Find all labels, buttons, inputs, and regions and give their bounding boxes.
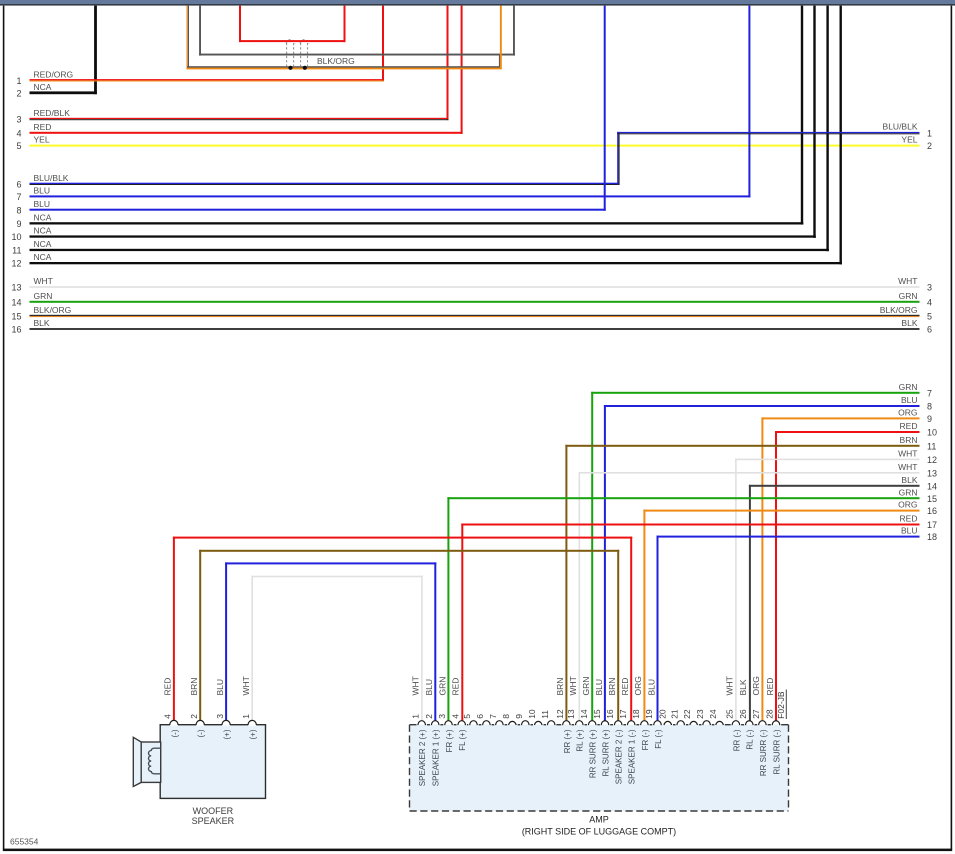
svg-text:BLK: BLK [901,475,917,485]
svg-text:BLU/BLK: BLU/BLK [883,122,918,132]
svg-text:13: 13 [927,468,937,478]
wire BLU row 8 horizontal [604,405,920,407]
wire NCA row12 vertical [840,6,842,265]
wire NCA row11 vertical [826,6,828,252]
svg-text:WHT: WHT [898,276,917,286]
svg-text:5: 5 [462,714,472,719]
svg-text:18: 18 [631,709,641,719]
wire WHT row 12 horizontal [735,459,919,461]
svg-text:17: 17 [618,709,628,719]
amp pin 11 scallop [547,721,555,725]
svg-text:(RIGHT SIDE OF LUGGAGE COMPT): (RIGHT SIDE OF LUGGAGE COMPT) [522,827,676,837]
svg-text:9: 9 [927,414,932,424]
wire BLK row 16 [30,328,920,330]
wire RED/ORG row 1 [30,79,385,80]
svg-text:NCA: NCA [34,212,52,222]
svg-text:10: 10 [11,232,21,242]
woofer pin 2 scallop [196,720,204,726]
wire GRN row 7 vertical [591,392,593,721]
svg-text:BRN: BRN [900,435,918,445]
woofer speaker cone [133,737,141,786]
svg-text:RR SURR (+): RR SURR (+) [589,729,598,778]
wire WHT row 12 vertical [735,459,737,721]
svg-text:20: 20 [657,709,667,719]
amp pin 18 scallop [641,721,649,725]
wire ORG row 9 vertical [761,417,763,720]
woofer pin 3 scallop [222,720,230,726]
woofer speaker magnet body [141,742,161,782]
wire ORG row 16 horizontal [643,510,919,512]
wire WHT woofer vertical left [251,576,253,721]
amp box fill [410,725,789,811]
svg-text:1: 1 [410,714,420,719]
svg-text:15: 15 [927,494,937,504]
svg-text:RED: RED [34,122,52,132]
svg-text:NCA: NCA [34,239,52,249]
svg-text:15: 15 [592,709,602,719]
svg-text:1: 1 [16,76,21,86]
inline connector dashed lead 2 [293,43,295,66]
amp box dashed bottom [410,810,789,812]
svg-text:9: 9 [514,714,524,719]
wire BLU/BLK row 6 [30,183,620,184]
wire gray vertical left [199,6,201,56]
svg-text:5: 5 [927,312,932,322]
wire NCA row9 vertical [801,6,803,225]
svg-text:19: 19 [644,709,654,719]
svg-text:NCA: NCA [34,226,52,236]
svg-text:RED/BLK: RED/BLK [34,108,71,118]
wire BLU row7 vertical [748,6,750,198]
wire red U right leg [344,6,346,42]
svg-text:26: 26 [738,709,748,719]
svg-text:7: 7 [927,388,932,398]
wire BLU woofer vertical right [434,562,436,720]
amp pin 24 scallop [716,721,724,725]
svg-text:BLU: BLU [901,526,918,536]
woofer pin 1 scallop [248,720,256,726]
svg-text:F02-JB: F02-JB [776,691,786,719]
svg-text:655354: 655354 [10,836,39,846]
svg-text:BLK/ORG: BLK/ORG [880,305,918,315]
svg-text:SPEAKER 1 (+): SPEAKER 1 (+) [432,729,441,786]
svg-text:SPEAKER 2 (+): SPEAKER 2 (+) [418,729,427,786]
svg-text:1: 1 [927,129,932,139]
wire BLU woofer vertical left [225,562,227,720]
svg-text:GRN: GRN [581,677,591,696]
svg-text:4: 4 [450,714,460,719]
wire NCA row 11 [30,249,829,251]
svg-text:BLU: BLU [901,395,918,405]
inline connector arc right [300,40,309,44]
svg-text:27: 27 [751,709,761,719]
svg-text:NCA: NCA [34,82,52,92]
wire BLK/ORG orange horizontal [187,68,502,70]
wire BRN woofer horizontal [199,550,619,552]
amp pin 19 scallop [654,721,662,725]
svg-text:RR SURR (-): RR SURR (-) [759,729,768,776]
wire NCA pin2 vertical [94,6,97,95]
svg-text:FL (-): FL (-) [654,729,663,749]
svg-text:8: 8 [501,714,511,719]
inline connector dashed lead 4 [307,43,309,66]
wire BLU row 18 vertical [657,536,659,721]
svg-text:12: 12 [555,709,565,719]
svg-text:GRN: GRN [437,677,447,696]
svg-text:28: 28 [765,709,775,719]
svg-text:3: 3 [215,714,225,719]
svg-text:6: 6 [475,714,485,719]
wire RED woofer horizontal [173,537,632,539]
wire BRN woofer vertical left [199,550,201,721]
svg-text:WHT: WHT [898,462,917,472]
svg-text:4: 4 [163,714,173,719]
svg-text:RR (-): RR (-) [732,729,741,751]
svg-text:WHT: WHT [898,449,917,459]
svg-text:RED: RED [620,678,630,696]
amp pin 9 scallop [522,721,530,725]
svg-text:NCA: NCA [34,252,52,262]
wire RED/BLK row 3 [30,118,449,119]
wire gray vertical right [513,6,515,56]
wire RED row 17 vertical [461,524,463,721]
wire red U left leg [239,6,241,42]
svg-text:SPEAKER 1 (-): SPEAKER 1 (-) [628,729,637,784]
amp pin 5 scallop [470,721,478,725]
amp pin 21 scallop [677,721,685,725]
svg-text:3: 3 [927,283,932,293]
svg-text:12: 12 [927,455,937,465]
amp pin 14 scallop [588,721,596,725]
wire NCA row 2 [30,91,97,94]
wire NCA row 9 [30,222,804,224]
wire NCA row10 vertical [813,6,815,238]
svg-text:23: 23 [695,709,705,719]
svg-text:13: 13 [11,283,21,293]
svg-text:BLU: BLU [34,186,51,196]
wire BLU row 7 [30,195,751,197]
amp pin 20 scallop [664,721,672,725]
inline connector dashed lead 1 [286,43,288,66]
svg-text:5: 5 [16,141,21,151]
wire BLU/BLK right row [617,132,919,133]
svg-text:22: 22 [682,709,692,719]
wire RED woofer vertical left [173,537,175,721]
amp pin 26 scallop [746,721,754,725]
svg-text:14: 14 [927,481,937,491]
wire BLU row 18 horizontal [657,536,920,538]
svg-text:BLK/ORG: BLK/ORG [34,305,72,315]
svg-text:WHT: WHT [568,676,578,695]
svg-text:2: 2 [927,141,932,151]
wire red vertical to row3 [447,6,449,120]
svg-text:10: 10 [527,709,537,719]
svg-text:YEL: YEL [34,135,50,145]
svg-text:ORG: ORG [633,676,643,695]
svg-text:18: 18 [927,532,937,542]
svg-text:GRN: GRN [899,291,918,301]
svg-text:BLU: BLU [215,679,225,696]
bottom border [3,849,952,852]
wire WHT row 13 vertical [579,472,581,721]
wire BLK row 14 horizontal [749,485,920,487]
wire BRN woofer vertical right [617,550,619,721]
svg-text:RL SURR (-): RL SURR (-) [772,729,781,774]
wire BLK/ORG gray segment [187,66,501,68]
top header bar [0,0,955,4]
woofer pin 4 scallop [170,720,178,726]
amp pin 25 scallop [732,721,740,725]
wire BRN row 11 vertical [565,445,567,721]
svg-text:(-): (-) [170,729,179,737]
svg-text:BLU: BLU [646,679,656,696]
svg-text:13: 13 [566,709,576,719]
svg-text:GRN: GRN [899,382,918,392]
inline connector arc left [286,40,295,44]
wire BLK row 14 vertical [749,485,751,721]
wire BLU row8 vertical [604,6,606,211]
svg-text:BLU: BLU [424,679,434,696]
svg-text:ORG: ORG [898,408,917,418]
svg-text:BLK/ORG: BLK/ORG [317,56,355,66]
svg-text:7: 7 [16,192,21,202]
wire GRN row 15 vertical [447,497,449,720]
svg-text:BLU/BLK: BLU/BLK [34,173,69,183]
svg-text:7: 7 [488,714,498,719]
amp pin 7 scallop [496,721,504,725]
wire BLU/BLK vertical link [617,132,618,185]
svg-text:FR (-): FR (-) [641,729,650,750]
svg-text:RED/ORG: RED/ORG [34,69,74,79]
amp pin 8 scallop [509,721,516,725]
amp pin 12 scallop [563,721,571,725]
amp pin 13 scallop [576,721,584,725]
svg-text:BLU: BLU [594,679,604,696]
wire GRN row 14 [30,301,920,303]
wire BLU woofer horizontal [225,562,436,564]
svg-text:BRN: BRN [189,678,199,696]
amp pin 23 scallop [703,721,711,725]
svg-text:16: 16 [927,506,937,516]
wire WHT row 13 horizontal [579,472,920,474]
amp pin 2 scallop [431,721,439,725]
amp pin 17 scallop [627,721,635,725]
svg-text:RED: RED [765,678,775,696]
wire WHT woofer horizontal [251,576,422,578]
svg-text:BRN: BRN [555,678,565,696]
svg-text:RED: RED [163,678,173,696]
svg-text:(-): (-) [197,729,206,737]
svg-text:RL SURR (+): RL SURR (+) [601,729,610,776]
svg-text:SPEAKER 2 (-): SPEAKER 2 (-) [615,729,624,784]
left border [3,6,5,849]
svg-text:RED: RED [451,678,461,696]
svg-text:3: 3 [437,714,447,719]
svg-text:1: 1 [241,714,251,719]
svg-text:BLU: BLU [34,199,51,209]
svg-text:3: 3 [16,115,21,125]
svg-text:BRN: BRN [607,678,617,696]
woofer speaker box [160,725,265,799]
svg-text:(+): (+) [223,729,232,739]
wire orange vertical right [500,6,502,68]
wire orange vertical left [187,6,188,70]
amp pin 4 scallop [458,721,466,725]
svg-text:FR (+): FR (+) [445,729,454,752]
wire red vertical to row4 [461,6,463,134]
svg-text:WOOFER: WOOFER [193,806,234,816]
svg-text:11: 11 [927,441,936,451]
wire GRN row 7 horizontal [591,392,919,394]
svg-text:25: 25 [725,709,735,719]
svg-text:8: 8 [16,205,21,215]
wire gray jog vertical [499,54,501,68]
svg-text:BLK: BLK [738,679,748,695]
svg-text:14: 14 [579,709,589,719]
svg-text:8: 8 [927,402,932,412]
svg-text:WHT: WHT [241,676,251,695]
svg-text:2: 2 [16,88,21,98]
wire RED row 17 horizontal [461,524,919,526]
svg-text:SPEAKER: SPEAKER [192,816,235,826]
svg-text:16: 16 [11,325,21,335]
amp pin 3 scallop [445,721,453,725]
wire NCA row 12 [30,262,843,264]
svg-text:14: 14 [11,297,21,307]
inline connector dashed lead 3 [300,43,302,66]
amp box dashed right [788,725,790,811]
amp pin 22 scallop [690,721,698,725]
svg-text:FL (+): FL (+) [458,729,467,751]
svg-text:RED: RED [900,514,918,524]
svg-text:4: 4 [927,297,932,307]
amp pin 10 scallop [535,721,543,725]
amp pin 1 scallop [418,721,426,725]
wire WHT woofer vertical right [421,576,423,721]
amp pin 16 scallop [614,721,622,725]
amp box dashed top [410,724,417,725]
svg-text:GRN: GRN [899,487,918,497]
svg-text:RED: RED [900,421,918,431]
wire RED woofer vertical right [630,537,632,721]
svg-text:WHT: WHT [411,676,421,695]
amp pin 28 scallop [772,721,780,725]
svg-text:2: 2 [189,714,199,719]
svg-text:GRN: GRN [34,291,53,301]
svg-text:RR (+): RR (+) [563,729,572,753]
svg-text:2: 2 [424,714,434,719]
svg-text:RL (-): RL (-) [746,729,755,749]
svg-text:ORG: ORG [898,500,917,510]
svg-text:15: 15 [11,312,21,322]
svg-text:11: 11 [12,246,21,256]
svg-text:6: 6 [16,179,21,189]
svg-text:21: 21 [669,709,679,719]
svg-text:12: 12 [11,259,21,269]
wire red vertical to row1 [382,6,384,82]
svg-text:BLK: BLK [901,318,917,328]
svg-text:RL (+): RL (+) [576,729,585,751]
svg-text:BLK: BLK [34,318,50,328]
wire red U bottom [239,40,346,42]
svg-text:17: 17 [927,520,937,530]
svg-text:9: 9 [16,219,21,229]
wire NCA row 10 [30,235,816,237]
junction dot right [303,66,307,70]
svg-text:WHT: WHT [34,276,53,286]
wire GRN row 15 horizontal [447,497,919,499]
wire BRN row 11 horizontal [565,445,919,447]
amp box dashed left [409,725,411,811]
svg-text:AMP: AMP [589,815,609,825]
wire RED row 4 [30,132,463,134]
wire ORG row 16 vertical [643,510,645,721]
svg-text:ORG: ORG [751,676,761,695]
wire RED row 10 vertical [775,431,777,721]
wire ORG row 9 horizontal [761,417,919,419]
wire RED row 10 horizontal [775,431,920,433]
junction dot left [288,66,292,70]
svg-text:WHT: WHT [725,676,735,695]
amp pin 6 scallop [483,721,491,725]
wire gray horizontal upper [199,54,515,56]
svg-text:11: 11 [540,710,550,719]
svg-text:24: 24 [708,709,718,719]
svg-text:YEL: YEL [901,134,917,144]
amp pin 15 scallop [601,721,609,725]
wire BLU row 8 [30,209,606,211]
amp pin 27 scallop [759,721,767,725]
wire BLU row 8 vertical [604,405,606,721]
wire YEL row 5 [30,145,920,147]
svg-text:16: 16 [605,709,615,719]
svg-text:10: 10 [927,428,937,438]
svg-text:4: 4 [16,128,21,138]
woofer voice coil [149,748,161,774]
svg-text:(+): (+) [249,729,258,739]
svg-text:6: 6 [927,325,932,335]
right border [951,6,953,849]
wire WHT row 13 [30,286,920,288]
wire BLK/ORG row 15 [30,315,920,316]
